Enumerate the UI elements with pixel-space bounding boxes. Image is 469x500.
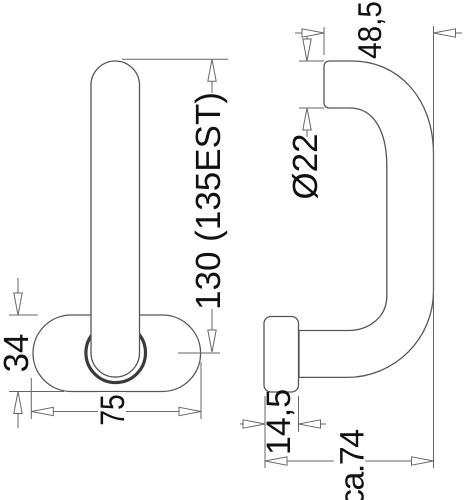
- dimension 34: arrow up (outside below): [14, 392, 22, 414]
- dimension 14,5: label: [267, 390, 295, 452]
- dimension 34: top extension line: [9, 314, 38, 316]
- dimension 75: arrow right: [179, 407, 201, 415]
- dimension D22: bottom extension line: [299, 107, 324, 109]
- handle tube outline (side view): [299, 61, 434, 377]
- dimension D22: top extension line: [299, 60, 324, 62]
- dimension D22: arrow up: [303, 108, 311, 130]
- dimension 130 (135EST): bottom extension line (rosette axis): [178, 352, 220, 354]
- dimension 75: text background: [98, 392, 126, 428]
- dimension 14,5: left tail line: [240, 423, 243, 425]
- dimension ca.74: label: [340, 430, 364, 500]
- dimension D22: label: [292, 135, 318, 198]
- dimension 14,5: arrow left (outside right): [299, 420, 321, 428]
- dimension 14,5: right tail line: [321, 423, 327, 425]
- dimension 75: label: [101, 395, 125, 424]
- dimension D22: arrow down: [303, 39, 311, 61]
- dimension ca.74: arrow right: [412, 457, 434, 465]
- dimension 75: arrow left: [31, 407, 53, 415]
- dimension D22: top tail line: [306, 33, 308, 39]
- dimension 48,5: arrow left (outside right): [434, 29, 456, 37]
- lever bar (vertical grip, front view): [91, 61, 140, 377]
- dimension 130 (135EST): top extension line: [122, 58, 228, 60]
- dimension 48,5: right tail line: [456, 32, 463, 34]
- rosette (side view): [264, 317, 299, 393]
- dimension 75: dimension line: [31, 411, 201, 413]
- dimension 14,5: left extension line (shared with ca.74): [264, 396, 266, 468]
- dimension ca.74: arrow left: [265, 457, 287, 465]
- dimension 14,5: arrow right (outside left): [243, 420, 265, 428]
- dimension 34: top tail line: [17, 278, 19, 293]
- dimension 48,5: left extension line: [323, 27, 325, 55]
- dimension ca.74: text background: [334, 434, 365, 500]
- dimension 130 (135EST): label: [195, 94, 228, 307]
- dimension ca.74: dimension line: [265, 460, 434, 462]
- rosette (oval escutcheon, front view): [33, 315, 201, 392]
- dimension 14,5: right extension line: [298, 396, 300, 432]
- dimension 34: arrow down (outside above): [14, 293, 22, 315]
- dimension 34: bottom extension line: [9, 391, 64, 393]
- dimension 130 (135EST): arrow down: [208, 330, 216, 352]
- collar ring around neck: [86, 323, 146, 383]
- dimension D22: bottom tail line: [306, 130, 308, 137]
- dimension 48,5: right extension line (shared with handle edge and ca.74): [433, 26, 435, 468]
- dimension 48,5: arrow right (outside left): [302, 29, 324, 37]
- dimension 75: right extension line: [200, 362, 202, 419]
- dimension 48,5: label: [358, 2, 385, 58]
- dimension 130 (135EST): text background: [193, 93, 227, 309]
- dimension 34: label: [4, 335, 29, 372]
- dimension 48,5: left tail line: [295, 32, 302, 34]
- dimension 34: bottom tail line: [17, 414, 19, 429]
- dimension 130 (135EST): arrow up: [208, 59, 216, 81]
- dimension 75: left extension line: [30, 378, 32, 419]
- dimension 130 (135EST): dimension line: [211, 59, 213, 352]
